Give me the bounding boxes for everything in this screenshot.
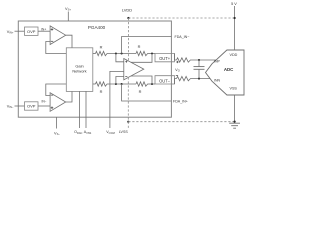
svg-text:5 V: 5 V	[231, 2, 237, 6]
wire OUT- external jog	[175, 79, 177, 84]
node dot LVSS	[127, 121, 129, 123]
node dot FDA_IN+ tap	[121, 83, 123, 85]
node dot LVDD	[127, 17, 129, 19]
svg-text:VDD: VDD	[230, 53, 238, 57]
FDA U1	[124, 59, 144, 80]
ADC block	[206, 50, 245, 95]
ground	[229, 123, 240, 128]
dashed rail LVSS horizontal	[128, 121, 234, 123]
wire OVP2 to op-amp	[38, 105, 50, 107]
wire A2 output to gain network	[66, 91, 72, 102]
svg-text:OVP: OVP	[27, 104, 36, 109]
resistor R input bottom	[96, 82, 109, 86]
wire VIN+ to OVP1	[15, 30, 25, 32]
ODAC stub	[79, 91, 81, 128]
dashed LVSS tail	[127, 122, 129, 128]
svg-text:OUT−: OUT−	[159, 79, 171, 84]
pin box OUT-	[155, 76, 175, 84]
wire OUT+ external jog	[175, 54, 177, 61]
wire A2 feedback	[46, 84, 67, 96]
supply VS- stub	[56, 117, 58, 128]
AVSS stub	[85, 91, 87, 128]
svg-text:ADC: ADC	[224, 67, 234, 72]
OVP block bottom	[25, 102, 39, 110]
wire FDA_IN- stub	[122, 37, 172, 54]
svg-text:R: R	[139, 89, 142, 94]
wire A1 output to gain network	[66, 35, 72, 48]
wire FDA out+	[131, 54, 152, 63]
supply VS+ stub	[67, 12, 69, 22]
svg-text:VOCM: VOCM	[106, 130, 114, 135]
node dot FDA_IN- tap	[121, 52, 123, 54]
node dot cap bottom	[198, 78, 200, 80]
node dot bottom input	[115, 83, 117, 85]
wire filter bottom to ADC INN	[192, 78, 211, 80]
node dot OUT-	[151, 83, 153, 85]
dashed LVSS vertical from FDA	[127, 77, 129, 121]
svg-text:R: R	[100, 89, 103, 94]
svg-text:VS−: VS−	[54, 131, 60, 136]
svg-text:VS+: VS+	[65, 7, 71, 12]
svg-text:R: R	[138, 44, 141, 49]
wire FDA_IN+ stub	[122, 84, 172, 101]
svg-text:ODAC: ODAC	[74, 130, 82, 135]
OVP block top	[25, 27, 39, 35]
wire R to FDA node (top)	[108, 53, 136, 55]
svg-text:AVSS: AVSS	[84, 130, 92, 135]
pin box OUT+	[155, 54, 175, 62]
dashed LVDD vertical to FDA	[127, 18, 129, 61]
resistor R input top	[96, 51, 109, 55]
svg-text:Network: Network	[72, 69, 86, 74]
svg-text:VIN+: VIN+	[7, 30, 14, 35]
wire feedback R to OUT- node	[149, 83, 156, 85]
wire A1 feedback	[46, 42, 67, 54]
wire VIN- to OVP2	[15, 105, 25, 107]
wire filter top to ADC INP	[192, 59, 217, 61]
resistor filter bottom	[177, 76, 192, 80]
capacitor C	[198, 60, 200, 67]
resistor R feedback top	[136, 51, 149, 55]
node dot VSS rail	[234, 121, 236, 123]
svg-text:FDA_IN−: FDA_IN−	[175, 35, 190, 39]
svg-text:VSS: VSS	[230, 86, 238, 90]
wire 5V to ADC VDD	[234, 6, 236, 50]
label Vo plus	[176, 61, 178, 63]
label Vo minus	[176, 74, 178, 76]
svg-text:IN−: IN−	[41, 100, 46, 104]
wire feedback R to OUT+ node	[149, 53, 156, 55]
resistor filter top	[177, 58, 192, 62]
svg-text:VO: VO	[175, 68, 180, 73]
op-amp A2	[50, 93, 66, 112]
node dot top input	[115, 52, 117, 54]
wire VOCM into FDA	[110, 71, 124, 128]
op-amp A1	[50, 26, 66, 45]
wire R to FDA node (bottom)	[108, 83, 136, 85]
wire node to FDA - input	[116, 77, 124, 85]
node dot 5V rail	[234, 17, 236, 19]
wire gain network to R (top)	[93, 53, 96, 55]
device box PGA400	[18, 21, 171, 117]
wire OVP1 to op-amp	[38, 30, 50, 32]
svg-text:PGA400: PGA400	[88, 25, 106, 30]
svg-text:FDA_IN+: FDA_IN+	[173, 99, 188, 103]
svg-text:LVSS: LVSS	[119, 130, 129, 134]
svg-text:IN+: IN+	[41, 27, 46, 31]
wire node to FDA + input	[116, 54, 124, 62]
svg-text:Gain: Gain	[75, 63, 83, 68]
svg-text:OVP: OVP	[27, 29, 36, 34]
node dot OUT+	[151, 52, 153, 54]
svg-text:OUT+: OUT+	[159, 56, 171, 61]
gain network box	[66, 48, 93, 92]
resistor R feedback bottom	[136, 82, 149, 86]
svg-text:VIN−: VIN−	[7, 104, 14, 109]
svg-text:LVDD: LVDD	[122, 7, 132, 12]
svg-text:INP: INP	[214, 60, 221, 64]
wire FDA out-	[131, 76, 152, 84]
wire ADC VSS to ground	[234, 95, 236, 123]
svg-text:R: R	[100, 44, 103, 49]
wire gain network to R (bottom)	[93, 83, 96, 85]
node dot cap top	[198, 59, 200, 61]
dashed rail LVDD horizontal	[128, 17, 234, 19]
svg-text:INN: INN	[214, 79, 221, 83]
